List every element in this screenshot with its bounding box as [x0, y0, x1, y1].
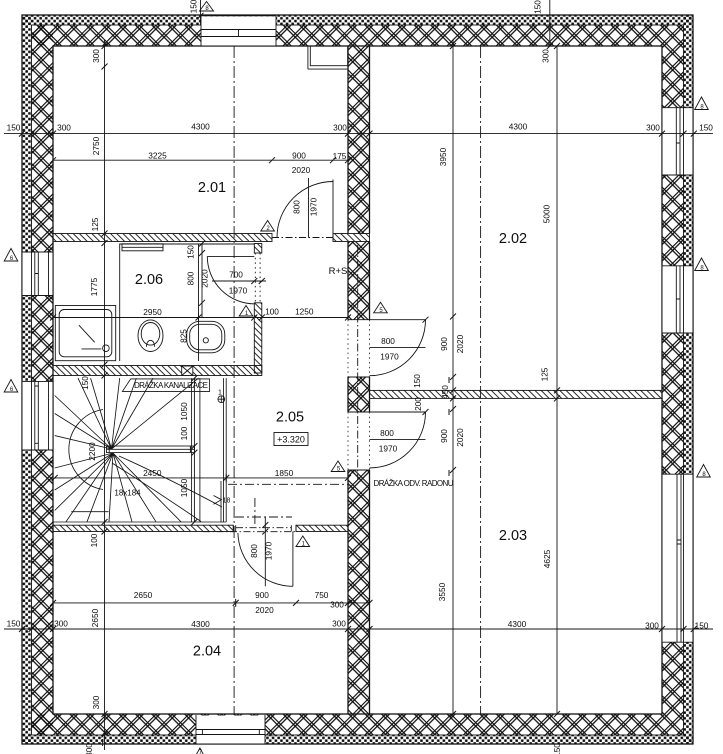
stair walking line curves: [119, 456, 222, 507]
partition P2 bathroom east wall upper block: [254, 244, 261, 254]
svg-text:2200: 2200: [87, 442, 97, 461]
door D2 to room 2.01: swing arc: [277, 182, 333, 238]
svg-text:1970: 1970: [309, 197, 319, 216]
svg-text:2.04: 2.04: [193, 644, 221, 660]
svg-text:150: 150: [695, 621, 709, 631]
structural wall bottom: [32, 714, 663, 735]
svg-text:2020: 2020: [455, 334, 465, 353]
svg-text:2.03: 2.03: [499, 528, 527, 544]
vertical chain x104.5: [104, 40, 106, 750]
window left A (bathroom) opening: [23, 252, 53, 296]
svg-text:125: 125: [90, 217, 100, 231]
section line vertical right: [480, 46, 482, 714]
washbasin drain: [203, 338, 208, 343]
svg-text:3550: 3550: [437, 582, 447, 601]
svg-text:300: 300: [541, 49, 551, 63]
svg-text:300: 300: [91, 49, 101, 63]
svg-text:150: 150: [533, 0, 543, 14]
toilet inner bowl: [141, 323, 160, 346]
shower tray outer: [55, 306, 115, 361]
partition P5 between 2.02 and 2.03: [370, 390, 663, 398]
svg-text:800: 800: [186, 271, 196, 285]
top mini dim line x549.8: [549, 0, 551, 46]
svg-text:2950: 2950: [143, 307, 162, 317]
svg-text:18x184: 18x184: [114, 489, 141, 498]
door 2.01 leaf dim line x308.5: [308, 178, 310, 238]
svg-text:300: 300: [330, 600, 344, 610]
svg-text:4625: 4625: [542, 549, 552, 568]
ticks vertical chain x557: [554, 43, 560, 717]
drazka kanalizace callout box: [122, 379, 224, 403]
svg-text:150: 150: [7, 619, 21, 629]
svg-text:2650: 2650: [90, 608, 100, 627]
hall dash-dot vertical small: [254, 498, 256, 527]
svg-text:4300: 4300: [191, 122, 210, 132]
svg-text:300: 300: [332, 619, 346, 629]
svg-text:4300: 4300: [191, 619, 210, 629]
svg-text:3225: 3225: [148, 150, 167, 160]
partition P4 below stair left part: [53, 525, 233, 531]
window right 3 (2.03) opening: [663, 474, 693, 642]
svg-text:1970: 1970: [229, 286, 248, 296]
svg-text:900: 900: [439, 429, 449, 443]
stair room bottom edge: [53, 521, 226, 523]
door D2 to room 2.01: leaf: [332, 180, 334, 238]
svg-text:18: 18: [223, 498, 231, 505]
DIMENSION TEXTS vertical: [80, 0, 562, 754]
ticks chain y160.2: [50, 157, 351, 163]
shower tray diagonal: [79, 325, 95, 342]
svg-text:1050: 1050: [179, 402, 189, 421]
svg-text:1970: 1970: [264, 541, 274, 560]
toilet outer bowl: [138, 320, 163, 352]
door D1b to room 2.04: leaf: [292, 532, 294, 587]
stair/hall boundary double line: [224, 378, 227, 522]
svg-text:825: 825: [179, 329, 189, 343]
toilet flush detail: [147, 340, 155, 347]
svg-text:175: 175: [333, 151, 347, 161]
stair winder arc: [69, 410, 103, 490]
partition P2 bathroom east wall lower block: [254, 303, 261, 373]
hall dash-dot small: [235, 516, 292, 518]
BATHROOM FIXTURES: [55, 244, 254, 362]
middle wall face dots in openings: [348, 320, 370, 470]
window bottom (2.04) opening: [196, 716, 265, 744]
svg-text:1775: 1775: [89, 277, 99, 296]
ticks at middle door leaf tips: [423, 317, 429, 415]
svg-text:300: 300: [646, 123, 660, 133]
STAIR: [53, 378, 226, 522]
svg-text:300: 300: [57, 123, 71, 133]
svg-text:150: 150: [412, 374, 422, 388]
door 2.02 dim horizontal y347.6: [370, 347, 426, 349]
svg-text:750: 750: [315, 590, 329, 600]
main chain top y133.6: [4, 133, 713, 135]
door D2 axis dash-dot: [272, 237, 333, 239]
wall insulation top row: [22, 15, 693, 25]
svg-text:2750: 2750: [91, 136, 101, 155]
door 2.03 dim horizontal y439.6: [370, 439, 426, 441]
svg-text:125: 125: [540, 367, 550, 381]
ticks main chain bottom: [19, 626, 697, 632]
svg-text:3950: 3950: [438, 147, 448, 166]
chain 2.04 top y602.9: [53, 602, 370, 604]
door D1 bathroom: swing arc: [207, 256, 254, 304]
svg-text:300: 300: [645, 621, 659, 631]
stair center rail: [107, 446, 195, 453]
svg-text:1250: 1250: [295, 307, 314, 317]
door D5 to room 2.02: leaf: [370, 319, 426, 321]
shower tray bottom line: [82, 348, 102, 350]
svg-text:2.06: 2.06: [135, 272, 163, 288]
svg-text:1: 1: [218, 390, 222, 397]
DIMENSION TEXTS horizontal: [7, 122, 714, 631]
svg-text:2020: 2020: [200, 269, 210, 288]
chain 2.01 doors y160.2: [53, 159, 348, 161]
vertical chain x453: [452, 40, 454, 714]
svg-text:700: 700: [229, 270, 243, 280]
svg-text:4300: 4300: [509, 122, 528, 132]
P4 door jamb lines: [233, 525, 296, 531]
door D5 to room 2.02: swing arc: [370, 320, 426, 376]
window top (2.01) opening: [201, 16, 276, 45]
partition P1 below room 2.01 left part: [53, 234, 272, 242]
svg-text:150: 150: [699, 123, 713, 133]
partition P1 right stub: [333, 234, 370, 242]
partition P3 below bathroom: [53, 366, 262, 376]
shower drain circle: [103, 345, 110, 352]
top mini dim line x200.5: [200, 0, 202, 25]
middle wall door jamb caps: [348, 320, 370, 470]
middle wall segment 3: [348, 377, 370, 412]
walking line arrow head: [214, 496, 222, 505]
svg-text:800: 800: [292, 200, 302, 214]
middle wall segment 4: [348, 470, 370, 714]
middle wall axis dash-dot: [357, 245, 359, 480]
ticks vertical chain x104.5: [102, 43, 108, 738]
ticks chain y317.5: [50, 314, 351, 322]
svg-text:450: 450: [440, 385, 450, 399]
bathroom door dim vertical x202: [201, 244, 203, 318]
svg-text:300: 300: [54, 619, 68, 629]
main chain bottom y629: [4, 628, 713, 630]
stair tread edge verticals: [192, 378, 200, 522]
window right 2 (2.02) opening: [663, 266, 693, 333]
svg-text:100: 100: [265, 307, 279, 317]
ticks chain y602.9: [50, 599, 373, 607]
svg-text:300: 300: [333, 123, 347, 133]
svg-text:1970: 1970: [379, 444, 398, 454]
svg-text:100: 100: [89, 533, 99, 547]
svg-text:900: 900: [292, 150, 306, 160]
ticks vertical chain x453: [449, 43, 456, 717]
shower tray inner: [59, 310, 112, 357]
tick top mini: [198, 13, 553, 49]
structural wall top: [32, 25, 663, 46]
svg-text:100: 100: [179, 426, 189, 440]
SECTION LINES: [228, 46, 481, 715]
bottom edge tick x102.6: [102, 739, 104, 746]
ticks main chain top: [19, 131, 697, 137]
bathroom enclosure line: [119, 244, 121, 362]
niche room 2.01 top right: [308, 46, 348, 69]
drain circle symbol: [218, 396, 225, 403]
washbasin outer: [187, 321, 225, 353]
wall insulation right column: [684, 15, 694, 744]
svg-text:2020: 2020: [292, 165, 311, 175]
door D1b to room 2.04: swing arc: [238, 533, 293, 586]
svg-text:5000: 5000: [542, 204, 552, 223]
middle wall left face: [347, 46, 349, 714]
ticks stair chain x194.4: [190, 375, 197, 525]
svg-text:800: 800: [249, 544, 259, 558]
bathroom counter line: [198, 244, 200, 362]
vertical chain x557: [556, 46, 558, 714]
door D1 bathroom: leaf: [207, 255, 254, 257]
window right 1 (2.02) opening: [663, 108, 693, 175]
svg-text:300: 300: [91, 695, 101, 709]
svg-text:150: 150: [552, 743, 562, 754]
section line vertical left: [233, 46, 235, 715]
svg-text:200: 200: [413, 397, 423, 411]
stair lower fan treads: [55, 453, 181, 522]
walking line end vertical: [220, 481, 222, 522]
elevation box +3.320: [274, 433, 308, 446]
svg-text:150: 150: [186, 245, 196, 259]
svg-text:2.05: 2.05: [276, 410, 304, 426]
kanalizace chase square in P3: [182, 366, 193, 376]
svg-text:2.01: 2.01: [198, 180, 226, 196]
svg-text:2650: 2650: [134, 590, 153, 600]
ROOM LABELS: [114, 180, 527, 660]
middle wall right face: [369, 46, 371, 714]
partition P4 right part: [296, 525, 348, 531]
middle wall segment 2: [348, 242, 370, 320]
ticks bathroom door x202: [199, 241, 205, 306]
ticks chain y477.9: [52, 474, 351, 482]
svg-text:150: 150: [189, 0, 199, 13]
PARTITIONS: [53, 234, 662, 532]
chain stair/hall y477.9: [55, 477, 348, 479]
svg-text:1050: 1050: [179, 478, 189, 497]
bathroom door dim horizontal y281: [212, 280, 266, 282]
svg-text:900: 900: [439, 337, 449, 351]
washbasin inner: [190, 324, 222, 350]
middle wall segment 1: [348, 46, 370, 234]
svg-text:2020: 2020: [255, 605, 274, 615]
svg-text:2020: 2020: [455, 428, 465, 447]
svg-text:4300: 4300: [508, 619, 527, 629]
svg-text:R+S: R+S: [329, 266, 348, 277]
structural wall left: [32, 25, 54, 735]
svg-text:2450: 2450: [143, 468, 162, 478]
radiator top of bathroom: [122, 244, 163, 251]
stair upper fan treads: [55, 378, 199, 449]
DOORS: [203, 180, 426, 587]
door D5b to room 2.03: swing arc: [370, 412, 426, 468]
vertical chain stair x194.4: [193, 378, 195, 522]
door D1 face dotted lines: [255, 253, 260, 303]
chain bathroom y317.5: [53, 317, 348, 319]
bottom left tread line: [71, 511, 108, 513]
hall dash-dot horizontal: [228, 483, 348, 485]
ticks bathroom door y281: [251, 278, 264, 284]
svg-text:300: 300: [84, 743, 94, 754]
svg-text:900: 900: [255, 590, 269, 600]
svg-text:DRÁŽKA KANALIZACE: DRÁŽKA KANALIZACE: [134, 381, 208, 390]
svg-text:1850: 1850: [275, 468, 294, 478]
svg-text:150: 150: [80, 376, 90, 390]
interior face rect: [53, 46, 662, 714]
wall insulation left column: [22, 15, 32, 744]
svg-text:DRÁŽKA ODV. RADONU: DRÁŽKA ODV. RADONU: [374, 479, 454, 488]
svg-text:1970: 1970: [380, 352, 399, 362]
door 2.04 dim vertical x265.3: [264, 517, 266, 586]
wall insulation bottom row: [22, 735, 693, 745]
door D5b to room 2.03: leaf: [370, 411, 426, 413]
bathroom top face line: [120, 243, 255, 245]
door D1b axis dash-dots: [236, 527, 291, 529]
svg-text:150: 150: [7, 123, 21, 133]
svg-text:800: 800: [380, 428, 394, 438]
svg-text:+3.320: +3.320: [277, 435, 305, 445]
svg-text:2.02: 2.02: [499, 231, 527, 247]
svg-text:800: 800: [381, 336, 395, 346]
ticks door 2.04 x265.3: [262, 522, 268, 535]
structural wall right: [662, 25, 684, 735]
window left B (stair) opening: [23, 381, 53, 450]
